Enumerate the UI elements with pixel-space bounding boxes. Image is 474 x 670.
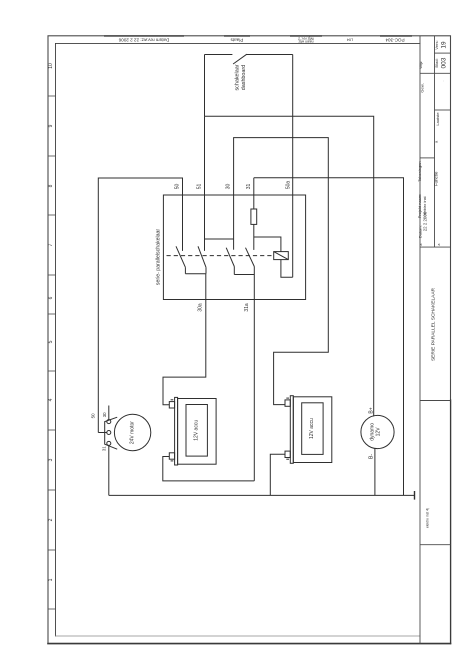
contact 3 terminal <box>233 239 235 250</box>
svg-text:elektro inst 4): elektro inst 4) <box>425 508 429 528</box>
battery B1 plate bar <box>175 397 178 465</box>
svg-text:dynamo: dynamo <box>369 423 375 441</box>
wire: motor 30 stub <box>108 406 110 420</box>
svg-text:POC-304: POC-304 <box>385 38 405 43</box>
title block row line <box>420 400 451 402</box>
svg-text:2: 2 <box>48 518 54 521</box>
motor terminal bracket <box>105 417 118 449</box>
wire: battery 2 minus to bus <box>270 454 285 495</box>
title block row line <box>420 157 435 159</box>
bus end tick <box>414 491 416 500</box>
svg-text:Plaats: Plaats <box>230 38 243 43</box>
motor terminal 30 <box>107 420 111 424</box>
left ruler numbers <box>48 63 54 581</box>
contact 3 blade <box>226 248 234 267</box>
battery B2 body <box>293 397 332 463</box>
contact 1 blade <box>176 246 185 267</box>
title block column divider <box>434 36 436 247</box>
wire: motor 31 to bus <box>108 446 110 496</box>
svg-text:31: 31 <box>102 446 107 451</box>
svg-text:Laatste: Laatste <box>435 112 440 126</box>
contact 2 blade <box>198 246 206 267</box>
battery B2 plus terminal <box>285 400 290 406</box>
svg-text:naam wijz: naam wijz <box>298 40 313 44</box>
svg-text:51: 51 <box>197 184 203 190</box>
wire: H_b 31 to coil <box>254 237 281 252</box>
relay box K1 <box>163 195 305 300</box>
svg-text:12V accu: 12V accu <box>194 420 200 441</box>
svg-text:30: 30 <box>226 184 232 190</box>
top strip overline segments <box>104 35 412 37</box>
title block row line <box>420 544 451 546</box>
outer border right emphasis <box>450 400 452 644</box>
svg-text:5: 5 <box>48 340 54 343</box>
mechanical link dashed line <box>167 255 274 257</box>
wire: 50a / switch box right edge down into relay box to coil <box>292 55 294 278</box>
wire: 31 from h2 down into relay <box>253 178 255 209</box>
svg-text:50: 50 <box>175 184 181 190</box>
svg-text:Tekeningnr:: Tekeningnr: <box>417 161 422 182</box>
battery B2 minus terminal <box>285 451 290 457</box>
battery B1 inner label box <box>186 405 207 457</box>
svg-text:50: 50 <box>91 413 96 418</box>
svg-text:serie- parallelschakelaar: serie- parallelschakelaar <box>156 229 162 285</box>
svg-text:30a: 30a <box>198 303 204 312</box>
battery B1 body <box>178 399 217 465</box>
svg-text:24V motor: 24V motor <box>130 421 136 444</box>
svg-text:Datum rev.wz: 22 2 2006: Datum rev.wz: 22 2 2006 <box>118 38 169 43</box>
wire: 51 from switch box to relay <box>204 116 206 251</box>
svg-text:Wijz: Wijz <box>418 61 423 69</box>
battery B2 plate bar <box>290 396 293 464</box>
wire: connector contacts 1-2 <box>185 273 205 275</box>
title block left edge <box>419 36 421 644</box>
svg-text:3: 3 <box>48 458 54 461</box>
title block row line <box>435 109 451 111</box>
wire: h2-left motor 50 link <box>98 178 182 433</box>
motor terminal 50 <box>107 431 111 435</box>
svg-text:30: 30 <box>102 412 107 417</box>
top revision strip text (upside down) <box>118 36 404 43</box>
svg-text:9: 9 <box>48 124 54 127</box>
svg-text:19: 19 <box>441 41 448 49</box>
wire: box bottom / to dynamo B+ (h1) <box>205 116 374 415</box>
svg-text:6: 6 <box>48 296 54 299</box>
svg-text:Functie: Functie <box>434 171 439 186</box>
svg-text:dashboard: dashboard <box>241 65 247 90</box>
svg-text:10: 10 <box>48 63 54 69</box>
battery B1 minus terminal <box>169 453 174 459</box>
title block texts (rotated) <box>417 40 448 528</box>
schematic labels (rotated) <box>91 64 382 459</box>
svg-text:L04: L04 <box>347 38 353 42</box>
svg-text:Gew,: Gew, <box>420 83 425 92</box>
dynamo G1 circle <box>361 415 394 448</box>
svg-text:SERIE PARALLEL SCHAKELAAR: SERIE PARALLEL SCHAKELAAR <box>430 287 436 361</box>
svg-text:4: 4 <box>48 398 54 401</box>
contact 4 blade <box>246 248 255 267</box>
wire: motor 50 link <box>98 432 106 434</box>
svg-text:12V accu: 12V accu <box>309 418 315 439</box>
svg-text:7: 7 <box>48 243 54 246</box>
contact 4 terminal <box>253 237 255 250</box>
wire: chassis bus <box>109 494 415 496</box>
battery B1 plus terminal <box>169 402 174 408</box>
svg-text:31: 31 <box>246 184 252 190</box>
wire: dynamo B+ <box>373 415 375 418</box>
relay coil K1 <box>274 252 289 260</box>
inner drawing border bottom <box>56 635 421 637</box>
svg-text:a: a <box>419 243 423 245</box>
starter motor M1 circle <box>114 414 150 450</box>
svg-text:Vers:: Vers: <box>434 40 439 49</box>
resistor R1 <box>251 209 257 224</box>
svg-text:12V: 12V <box>376 427 382 437</box>
outer border bottom emphasis <box>48 643 451 645</box>
battery B2 inner label box <box>302 403 323 455</box>
contact 1 lower stub <box>184 267 186 273</box>
wire: H_a 51-30 link <box>205 238 234 240</box>
contact 3 lower stub <box>233 267 235 275</box>
svg-text:schakelaar: schakelaar <box>234 64 240 90</box>
svg-text:1: 1 <box>48 578 54 581</box>
outer border frame <box>48 36 451 644</box>
svg-text:B+: B+ <box>369 407 375 413</box>
wire: 31a exit down <box>253 267 255 481</box>
svg-text:22 2 2006: 22 2 2006 <box>422 211 427 231</box>
wire: 30a exit to battery 1 plus <box>163 274 206 405</box>
wire: to battery 1 minus <box>163 457 255 481</box>
svg-text:31a: 31a <box>244 303 250 312</box>
svg-text:8: 8 <box>48 184 54 187</box>
wire: dynamo B- to bus <box>374 448 376 495</box>
svg-text:Blad:: Blad: <box>434 58 439 67</box>
wire: connector contacts 3-4 <box>234 274 254 276</box>
inner drawing border top <box>56 42 421 44</box>
svg-text:B-: B- <box>369 454 375 459</box>
svg-text:a: a <box>437 243 441 245</box>
wire: h2-right 31 to chassis <box>254 178 404 496</box>
inner drawing border left <box>55 43 57 636</box>
contact 2 lower stub <box>205 267 207 273</box>
dashboard switch box S1 <box>205 55 293 117</box>
svg-text:.: . <box>441 80 445 81</box>
wire: coil bottom to 50a <box>281 260 293 278</box>
svg-text:50a: 50a <box>286 181 292 190</box>
title block row line <box>420 246 451 248</box>
title block row line <box>420 72 451 74</box>
title block row line (Vers/Blad) <box>435 52 451 54</box>
left ruler ticks <box>48 96 56 609</box>
motor terminal 31 <box>107 441 111 445</box>
wire: 30 net to battery 2 plus <box>234 138 329 405</box>
switch blade S1 <box>233 54 247 64</box>
svg-text:003: 003 <box>441 57 448 68</box>
